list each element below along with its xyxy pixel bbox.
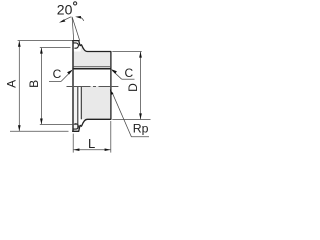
D arrow up: [139, 52, 142, 58]
D arrow down: [139, 113, 142, 119]
A arrow down: [18, 125, 21, 131]
angle left arrow: [59, 19, 65, 22]
svg-text:B: B: [27, 80, 41, 88]
B arrow down: [40, 119, 43, 125]
dimension L line: [74, 149, 111, 151]
dimension B line: [40, 48, 42, 125]
Rp underline: [131, 136, 149, 138]
angle right arrow tail: [81, 17, 84, 20]
centerline: [67, 86, 119, 88]
top gasket curl: [73, 43, 78, 48]
C left leader: [61, 71, 72, 82]
part external fill (lower half): [81, 86, 111, 119]
B arrow up: [40, 48, 43, 54]
dimension B extension top: [40, 47, 71, 49]
angle slanted line: [72, 17, 80, 41]
svg-text:C: C: [53, 67, 62, 81]
C right arrow: [111, 69, 117, 74]
dimension D extension top: [112, 51, 141, 53]
dimension A extension bottom: [10, 130, 69, 132]
svg-text:C: C: [124, 66, 133, 80]
dimension L extension right: [110, 121, 112, 153]
flange face line: [72, 41, 74, 132]
svg-text:L: L: [88, 136, 95, 151]
Rp arrow: [110, 89, 114, 95]
part wall fill (sectioned upper half): [73, 46, 111, 69]
C left underline: [49, 81, 61, 83]
svg-text:Rp: Rp: [133, 122, 149, 136]
dimension A line: [18, 41, 20, 131]
Rp leader: [112, 92, 131, 137]
flange back edge (lower external half): [77, 86, 79, 129]
svg-text:20: 20: [57, 1, 73, 17]
angle right arrow: [75, 16, 81, 19]
C left arrow: [67, 70, 73, 75]
bottom gasket curl: [73, 124, 78, 129]
svg-text:A: A: [4, 80, 18, 88]
svg-text:D: D: [126, 83, 140, 92]
dimension D extension bottom: [112, 119, 150, 121]
part outline top: [72, 41, 111, 132]
dimension L extension left: [72, 134, 74, 153]
thread crest thin line: [74, 66, 111, 68]
thread bore line: [72, 68, 111, 70]
A arrow up: [18, 41, 21, 47]
angle left arrow tail: [64, 17, 72, 21]
L arrow right: [105, 148, 111, 151]
dimension D line: [140, 52, 142, 119]
L arrow left: [74, 148, 80, 151]
dimension A extension top: [18, 40, 72, 42]
flange strip fill (lower half): [73, 86, 78, 131]
C right underline: [122, 78, 135, 80]
dimension B extension bottom: [40, 124, 77, 126]
hub edge (lower external half): [80, 86, 82, 119]
C right leader: [112, 70, 122, 79]
angle left reference line: [72, 17, 74, 40]
